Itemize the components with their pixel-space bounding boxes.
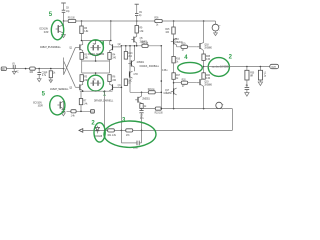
node <box>80 111 82 113</box>
capacitor C5 <box>133 141 139 150</box>
voltage source V2 <box>216 102 225 111</box>
wire bias emitter <box>134 67 136 71</box>
wire <box>141 130 143 143</box>
node <box>161 92 163 94</box>
svg-text:2N5401_MJE350: 2N5401_MJE350 <box>88 54 105 56</box>
wire base row lower-left <box>67 110 94 112</box>
model text bias row <box>140 65 168 72</box>
wire output column top <box>203 21 205 43</box>
wire col feedback node <box>120 46 122 131</box>
node <box>50 68 52 70</box>
wire VAS lower row <box>130 91 161 93</box>
node <box>141 92 143 94</box>
wire <box>136 43 138 46</box>
wire lower pair top <box>82 72 110 74</box>
ground <box>62 35 66 38</box>
annotation circle 5a <box>51 20 63 40</box>
wire driver emitter <box>176 45 178 47</box>
label flag D1 <box>91 110 95 114</box>
transistor Q3 2N5551 <box>69 82 83 92</box>
node <box>129 45 131 47</box>
transistor Q4 2N5551 <box>110 82 122 92</box>
transistor Q1 2N5401 <box>69 41 83 53</box>
svg-text:D4BAT_85 /D2M8ALL: D4BAT_85 /D2M8ALL <box>40 46 62 49</box>
transistor Q18 2N5880 <box>197 42 213 50</box>
annotation ellipse 4 <box>178 62 203 73</box>
resistor R22 <box>140 104 147 109</box>
node <box>161 80 163 82</box>
wire cross stub <box>63 58 65 75</box>
wire <box>62 101 64 109</box>
wire <box>203 60 205 72</box>
transistor Q5 2N5401 <box>131 36 147 43</box>
label flag DC input <box>1 67 6 71</box>
svg-text:8R: 8R <box>250 76 253 78</box>
wire diagonal to Q3 base <box>64 61 76 87</box>
transistor Q6 2N5551 <box>135 92 150 103</box>
resistor R2 <box>49 71 56 78</box>
wire <box>173 34 175 39</box>
node <box>125 45 127 47</box>
ground <box>62 112 66 116</box>
wire <box>173 79 175 88</box>
power flag top-middle <box>135 4 139 13</box>
wire col 130 <box>129 46 131 93</box>
resistor R10 27k <box>126 129 133 137</box>
resistor R17 1k <box>172 73 181 80</box>
resistor R4 <box>108 53 117 60</box>
svg-text:D4WAS_ /D4DBALL: D4WAS_ /D4DBALL <box>140 65 160 68</box>
transistor Q7 bias <box>128 60 145 67</box>
power flag V+ top-left <box>61 3 66 10</box>
node <box>173 108 175 110</box>
wire <box>203 51 205 54</box>
svg-text:2N5401: 2N5401 <box>137 62 145 64</box>
wire VAS base row <box>121 45 161 47</box>
resistor R14 <box>124 79 131 85</box>
node <box>173 82 175 84</box>
annotation circle 1b <box>88 75 104 91</box>
wire zobel A <box>246 67 248 71</box>
wire col mid driver <box>173 44 175 56</box>
current mirror pair inside circle 1b <box>90 80 100 86</box>
node output <box>203 66 205 68</box>
wire V2 right leg <box>231 109 233 131</box>
node <box>141 108 143 110</box>
wire top supply rail <box>64 20 216 22</box>
ground <box>258 80 262 86</box>
resistor R3b <box>80 75 89 82</box>
resistor R26 rail <box>154 18 162 27</box>
wire <box>141 109 143 111</box>
wire <box>95 55 97 61</box>
node <box>25 68 27 70</box>
value text C2 <box>42 73 48 78</box>
node <box>38 68 40 70</box>
transistor Q9 ECX10N (inside circle 5a) <box>40 25 64 34</box>
svg-text:0.35u: 0.35u <box>162 70 168 72</box>
svg-text:TR: TR <box>93 80 96 82</box>
node <box>203 20 205 22</box>
svg-text:EVBAT_SERIESLL: EVBAT_SERIESLL <box>50 88 69 91</box>
capacitor lower <box>62 110 66 112</box>
capacitor C11 <box>245 85 250 89</box>
wire output line <box>204 66 270 68</box>
wire bottom feedback row <box>83 129 233 131</box>
transistor Q16 driver <box>171 38 183 45</box>
wire <box>81 59 83 61</box>
wire bias collector <box>134 46 136 61</box>
wire <box>139 142 141 144</box>
node <box>203 108 205 110</box>
wire col VAS out <box>160 46 162 109</box>
capacitor C2 <box>37 69 41 79</box>
ground below V1 <box>214 33 218 36</box>
wire <box>63 21 65 35</box>
ground under V3 <box>12 69 19 74</box>
inductor L1 <box>258 70 266 80</box>
svg-text:2N5886: 2N5886 <box>204 84 212 86</box>
transistor Q17 driver <box>164 88 177 95</box>
node input junction <box>63 68 65 70</box>
resistor R4b <box>108 75 117 82</box>
resistor R19 <box>181 43 187 52</box>
wire <box>203 86 205 108</box>
wire diagonal to Q1 base <box>64 48 76 75</box>
node <box>136 20 138 22</box>
wire col Q3 emitter down <box>80 91 82 98</box>
node <box>110 40 112 42</box>
svg-text:R21 1k: R21 1k <box>148 89 156 91</box>
node <box>104 130 106 132</box>
ground <box>245 90 249 97</box>
svg-text:R5 100: R5 100 <box>68 18 76 20</box>
wire mid link right <box>109 61 111 73</box>
wire <box>110 21 112 41</box>
node <box>110 20 112 22</box>
node <box>134 45 136 47</box>
ground <box>37 79 41 82</box>
svg-text:6.8R: 6.8R <box>44 32 49 34</box>
node <box>121 130 123 132</box>
svg-text:MJE350: MJE350 <box>164 93 173 95</box>
node <box>136 45 138 47</box>
annotation circle 5b <box>50 96 65 115</box>
wire <box>173 63 175 73</box>
wire <box>81 34 83 41</box>
transistor Q19 2N5886 <box>197 79 213 87</box>
wire <box>173 94 175 108</box>
annotation circle 2 <box>208 58 229 77</box>
diode D2 <box>95 126 103 138</box>
svg-text:1N4148: 1N4148 <box>95 136 103 138</box>
svg-text:DC: DC <box>2 69 6 71</box>
node <box>173 20 175 22</box>
wire <box>136 16 138 21</box>
wire to Q18 base <box>177 46 197 48</box>
resistor R38 0.33 <box>202 54 211 61</box>
node <box>260 66 262 68</box>
svg-text:100R: 100R <box>38 106 44 108</box>
wire upper pair top <box>82 40 111 42</box>
node <box>141 130 143 132</box>
resistor R21 <box>148 89 156 94</box>
node <box>82 90 84 92</box>
wire input line <box>6 68 63 70</box>
node <box>81 40 83 42</box>
node <box>95 60 97 62</box>
source V3 bars <box>12 63 15 69</box>
svg-text:2N5551: 2N5551 <box>142 98 150 100</box>
wire NFB loop left <box>120 130 122 143</box>
current mirror pair inside circle 1a <box>90 41 100 51</box>
wire upper pair bottom <box>82 60 110 62</box>
label flag FB arrow <box>79 129 83 133</box>
resistor R30 load <box>245 70 255 80</box>
resistor R11 <box>108 129 117 137</box>
transistor Q2 2N5401 <box>110 41 122 53</box>
resistor R16 1k <box>172 56 181 63</box>
annotation ellipse 3 <box>104 121 156 147</box>
svg-text:TR: TR <box>93 44 96 46</box>
wire lower supply row <box>142 108 233 110</box>
wire NFB loop bottom <box>121 142 136 144</box>
wire feedback column <box>115 46 122 48</box>
node <box>95 40 97 42</box>
annotation circle 1a <box>88 40 104 56</box>
resistor R5 100 (rail) <box>68 18 76 23</box>
svg-text:R23 100: R23 100 <box>155 113 164 115</box>
resistor R12 <box>141 42 149 47</box>
annotation tick (digit 1 upper) <box>102 41 104 46</box>
wire <box>95 73 97 75</box>
wire <box>81 21 83 26</box>
wire <box>80 105 82 112</box>
annotation circle 2b <box>94 123 105 142</box>
wire mid link left <box>81 61 83 73</box>
resistor R7 1.4k <box>79 99 88 106</box>
wire lower pair bottom <box>80 90 113 92</box>
resistor R6 1.8k <box>80 26 89 34</box>
node rail-left <box>63 20 65 22</box>
voltage source V1 <box>212 21 221 33</box>
resistor R20 <box>181 79 187 88</box>
resistor R9 1.8k <box>135 26 144 34</box>
resistor R3 <box>80 53 89 60</box>
resistor R15 <box>165 27 175 34</box>
svg-text:OUT: OUT <box>271 67 276 69</box>
svg-text:DRIVER_DARNELL: DRIVER_DARNELL <box>94 100 114 103</box>
wire <box>141 102 143 104</box>
resistor R23 <box>155 107 164 115</box>
transistor Q10 ECX10N lower (inside circle 5b) <box>33 101 63 109</box>
wire to Q19 base <box>174 82 197 84</box>
resistor R1 100 <box>29 67 35 74</box>
node <box>95 72 97 74</box>
capacitor C9 <box>135 12 143 17</box>
node <box>104 90 106 92</box>
svg-text:AC: AC <box>16 71 19 74</box>
svg-text:4.7R: 4.7R <box>133 74 138 76</box>
resistor R40 0.33 <box>202 73 211 80</box>
wire <box>109 59 111 61</box>
node <box>121 45 123 47</box>
wire <box>63 12 65 21</box>
wire zobel B <box>259 67 261 71</box>
node <box>121 87 123 89</box>
resistor R13 2k2 <box>124 46 133 59</box>
transistor Q8 bias <box>130 71 139 78</box>
node <box>161 108 163 110</box>
wire driver column top <box>173 21 175 27</box>
wire <box>136 33 138 36</box>
wire <box>141 113 143 131</box>
wire <box>136 21 138 26</box>
node <box>81 20 83 22</box>
label flag OUT <box>270 64 279 69</box>
capacitor C7 <box>139 111 144 121</box>
svg-text:ECX10N: ECX10N <box>40 29 49 31</box>
capacitor C8 <box>62 8 71 14</box>
svg-text:2N5880: 2N5880 <box>204 47 212 49</box>
svg-text:R11 1.8k: R11 1.8k <box>108 135 117 137</box>
wire <box>246 80 248 87</box>
ground <box>49 78 52 83</box>
svg-text:ECX10N: ECX10N <box>33 103 42 105</box>
node <box>161 45 163 47</box>
wire tail col down <box>104 91 106 130</box>
svg-text:R12 1k: R12 1k <box>141 42 149 44</box>
node <box>246 66 248 68</box>
resistor R8 1.4k <box>71 110 77 118</box>
